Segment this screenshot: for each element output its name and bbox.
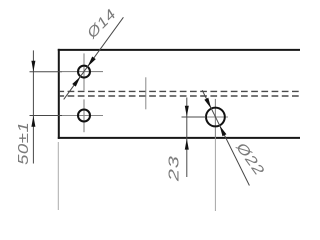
dimension 23 top arrow: [185, 106, 189, 117]
leader Ø22 lower arrow: [220, 125, 227, 136]
svg-text:Ø14: Ø14: [84, 6, 120, 42]
hole H2 horizontal centerline: [62, 115, 103, 117]
svg-text:23: 23: [165, 155, 181, 182]
dimension 50±1 bottom extension line: [30, 115, 63, 117]
dimension 50±1 line: [32, 50, 34, 163]
dimension 23 bottom arrow: [185, 139, 189, 150]
leader line Ø22: [202, 90, 249, 185]
svg-text:50±1: 50±1: [15, 122, 32, 165]
leader Ø22 upper arrow: [204, 98, 211, 109]
hole H3 horizontal centerline: [203, 116, 228, 118]
hole H1 (Ø14 top): [78, 66, 90, 78]
leader line Ø14: [64, 17, 124, 99]
svg-text:Ø22: Ø22: [232, 139, 267, 179]
hole H1 vertical centerline: [83, 53, 85, 90]
hole H3 vertical centerline: [214, 99, 216, 139]
dimension 23 extension line: [182, 116, 207, 118]
hidden slot dashed line upper: [60, 90, 300, 92]
plate bottom edge: [58, 137, 300, 139]
hole H2 (bottom small): [78, 110, 90, 122]
hole H3 (Ø22): [206, 108, 225, 127]
plate left edge: [58, 49, 60, 139]
leader Ø14 lower arrow: [72, 76, 80, 86]
mid centerline: [145, 77, 147, 109]
dimension 50±1 top arrow: [31, 61, 35, 72]
dimension 50±1 bottom arrow: [31, 116, 35, 127]
hidden slot dashed line lower: [60, 95, 300, 97]
hole H3 vertical centerline extension below plate: [214, 139, 216, 211]
dimension 50±1 top extension line: [30, 71, 63, 73]
leader Ø14 upper arrow: [88, 57, 96, 67]
plate top edge: [58, 49, 300, 51]
hole H2 vertical centerline: [83, 99, 85, 132]
dimension 23 line: [186, 98, 188, 178]
hole H1 horizontal centerline: [62, 71, 103, 73]
plate left edge projection line below: [57, 142, 59, 210]
